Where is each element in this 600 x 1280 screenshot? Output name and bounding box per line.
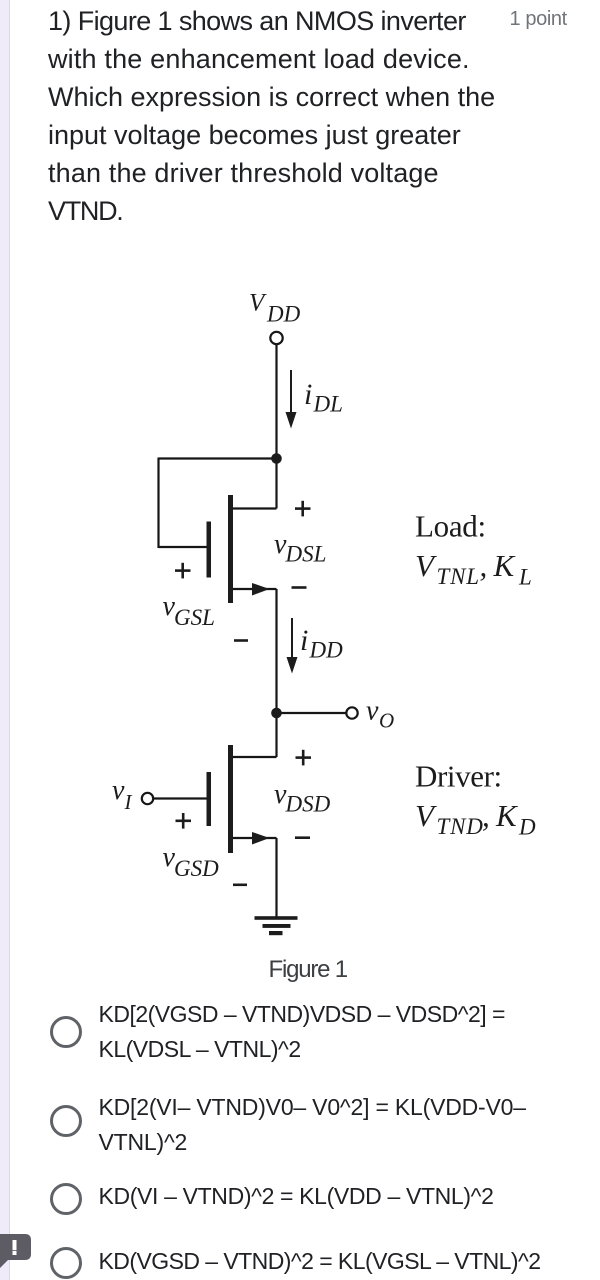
svg-text:V: V [415,798,437,833]
svg-text:V: V [249,289,267,316]
svg-text:O: O [379,709,394,733]
svg-text:I: I [124,790,133,814]
svg-text:i: i [304,378,312,411]
svg-text:GSD: GSD [174,856,219,881]
svg-text:DSL: DSL [285,541,327,566]
svg-text:i: i [300,624,308,657]
svg-text:DD: DD [309,638,344,663]
svg-text:DL: DL [313,392,343,417]
svg-text:Driver:: Driver: [415,759,502,794]
svg-text:DSD: DSD [285,791,331,816]
svg-text:v: v [366,696,379,727]
svg-text:TND: TND [437,814,484,839]
svg-text:V: V [415,548,437,583]
svg-text:D: D [518,815,536,840]
svg-text:Load:: Load: [415,509,486,544]
svg-text:K: K [493,548,517,583]
svg-text:,: , [480,548,488,583]
svg-text:TNL: TNL [437,564,480,589]
svg-text:,: , [482,798,490,833]
svg-text:v: v [112,775,125,806]
svg-text:K: K [495,798,519,833]
svg-text:L: L [518,565,532,590]
svg-text:DD: DD [266,301,301,326]
svg-text:GSL: GSL [174,605,215,630]
